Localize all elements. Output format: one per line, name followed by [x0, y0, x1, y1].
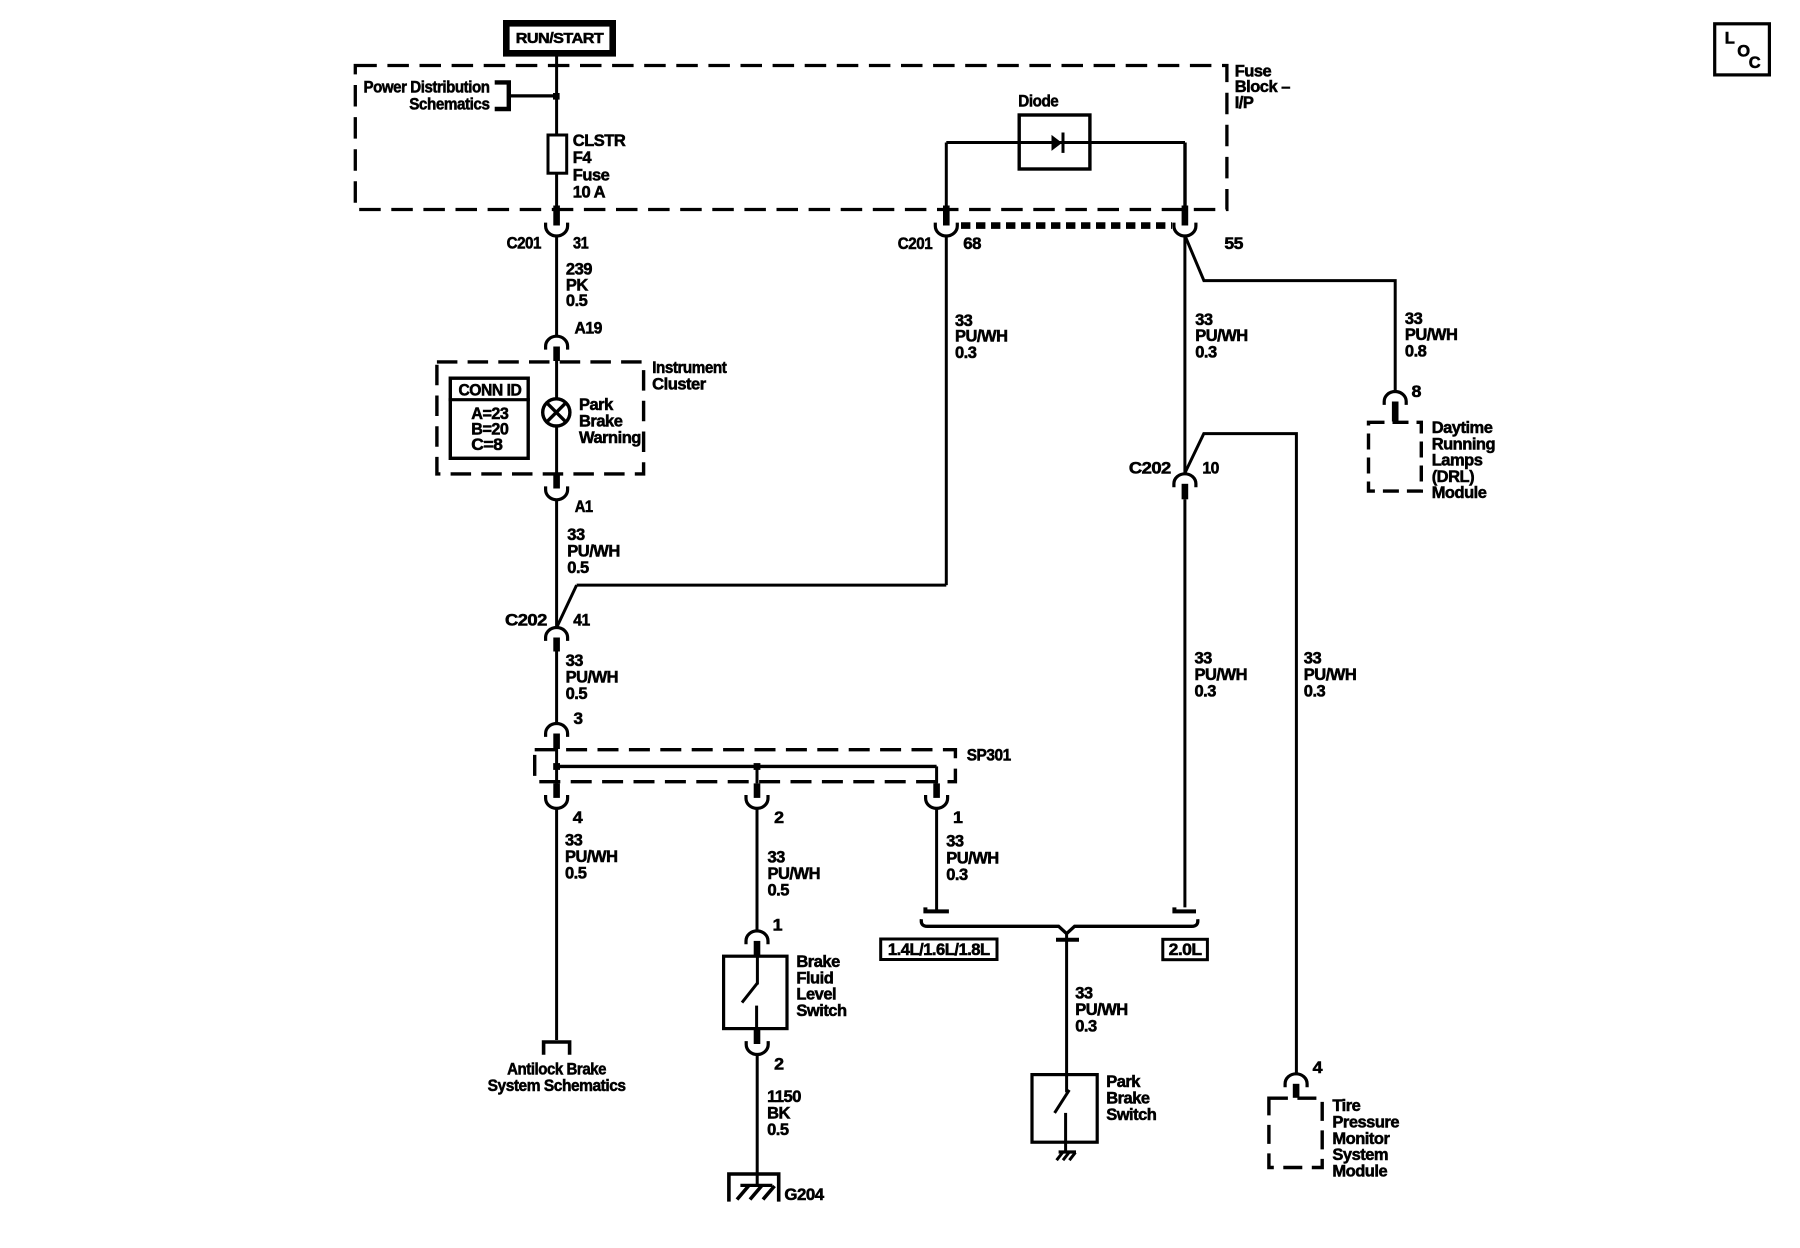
svg-text:RUN/START: RUN/START	[516, 30, 604, 47]
wire 239 PK 0.5 from C201-31 to cluster pin A19	[555, 236, 558, 336]
svg-text:L: L	[1725, 29, 1735, 47]
wire 33 PU/WH 0.3 from C201-55 down to C202 pin 10	[1183, 236, 1186, 474]
svg-text:Instrument: Instrument	[652, 359, 727, 377]
connector SP301 pin 4 female cup	[546, 795, 568, 808]
svg-text:G204: G204	[784, 1186, 825, 1204]
connector A1 female cup	[546, 486, 568, 499]
connector pin 4 male pin (TPM)	[1293, 1084, 1300, 1098]
connector pin 2 female cup (BFLS out)	[746, 1041, 768, 1054]
wire end tick (1.4L/1.6L/1.8L variant)	[925, 907, 949, 911]
wire 1150 BK 0.5 to ground G204	[756, 1055, 759, 1186]
junction dot SP301 at pin 3/4 column	[553, 763, 560, 770]
svg-text:1: 1	[773, 916, 783, 934]
svg-text:Cluster: Cluster	[652, 376, 707, 394]
connector SP301 pin 3 female cup	[546, 724, 568, 737]
park brake switch contacts	[1065, 1073, 1068, 1092]
off-page connector to antilock brake system schematics	[542, 1040, 572, 1055]
svg-text:A1: A1	[575, 498, 593, 516]
svg-text:System Schematics: System Schematics	[488, 1077, 626, 1095]
svg-text:C201: C201	[898, 235, 933, 253]
svg-text:CONN ID: CONN ID	[458, 382, 521, 400]
connector SP301 pin 4 male pin	[553, 783, 560, 798]
brake fluid level switch contacts	[756, 955, 759, 985]
engine variant selection brace	[921, 919, 1198, 933]
svg-text:10: 10	[1202, 459, 1219, 477]
LOC reference box	[1715, 24, 1770, 75]
connector A19 male pin into instrument cluster	[553, 347, 560, 362]
connector A19 female cup	[546, 336, 568, 349]
label box 2.0L	[1163, 939, 1208, 959]
ground G204 symbol	[729, 1174, 779, 1202]
wire end tick (2.0L variant)	[1174, 907, 1196, 911]
connector C201 pin 68 female cup	[935, 223, 957, 236]
junction dot at power distribution tap	[553, 93, 560, 100]
connector C202 pin 10 male pin	[1182, 484, 1189, 500]
connector C202 pin 10 female cup	[1174, 474, 1196, 487]
label box 1.4L/1.6L/1.8L	[881, 939, 997, 960]
wire SP301 bus drop to pin 4	[555, 766, 558, 783]
svg-text:C: C	[1749, 54, 1761, 72]
svg-text:C=8: C=8	[471, 436, 502, 454]
connector SP301 pin 3 male pin	[553, 734, 560, 750]
wire 33 PU/WH 0.3 from SP301-1 to engine variant brace	[935, 809, 938, 910]
splice pack SP301 dashed outline	[535, 750, 956, 782]
fuse CLSTR F4 10A symbol	[548, 135, 567, 173]
diagonal wire into C202 pin 41	[557, 585, 577, 628]
wire 33 PU/WH 0.3 from brace to park brake switch	[1065, 934, 1068, 1075]
connector pin 8 male pin (DRL)	[1392, 402, 1399, 422]
svg-text:4: 4	[573, 809, 584, 827]
svg-text:Antilock Brake: Antilock Brake	[507, 1060, 606, 1078]
svg-text:C201: C201	[507, 234, 542, 252]
connector SP301 pin 2 female cup	[746, 795, 768, 808]
wire from RUN/START down to fuse CLSTR F4	[555, 57, 558, 136]
fuse block I/P dashed outline	[355, 66, 1227, 210]
wire SP301 bus drop to pin 1	[935, 766, 938, 783]
junction dot SP301 at pin 2 column	[754, 763, 761, 770]
svg-text:8: 8	[1412, 383, 1422, 401]
park brake switch box	[1032, 1075, 1097, 1143]
wire through fuse to C201 pin 31	[555, 173, 558, 208]
connector A1 male pin out of instrument cluster	[553, 473, 560, 489]
connector pin 1 male pin (BFLS)	[754, 941, 761, 956]
connector C201 pin 55 male pin	[1182, 206, 1189, 226]
connector pin 8 female cup (DRL)	[1384, 392, 1406, 405]
connector SP301 pin 2 male pin	[754, 783, 761, 798]
brake fluid level switch box	[724, 956, 787, 1028]
instrument cluster dashed outline	[437, 362, 644, 474]
tire pressure monitor system module dashed outline	[1269, 1098, 1322, 1167]
connector pin 2 male pin (BFLS out)	[754, 1028, 761, 1044]
wire SP301 entry to bus	[555, 748, 558, 766]
CONN ID table box	[450, 378, 528, 458]
svg-text:2: 2	[774, 1055, 784, 1073]
svg-text:41: 41	[573, 612, 590, 630]
diode box outline	[1019, 115, 1090, 169]
wire 33 PU/WH 0.3 from C202-10 to engine variant brace	[1183, 499, 1186, 907]
wire 33 PU/WH 0.5 from A1 to C202 pin 41	[555, 500, 558, 628]
bracket from Power Distribution Schematics to wire	[495, 82, 509, 109]
connector pin 1 female cup (BFLS)	[746, 931, 768, 944]
connector C201 pin 55 female cup	[1174, 223, 1196, 236]
svg-text:1.4L/1.6L/1.8L: 1.4L/1.6L/1.8L	[888, 941, 990, 959]
chassis ground at park brake switch	[1057, 1152, 1076, 1160]
connector C201 pin 68 male pin	[943, 206, 950, 226]
connector C201 pin 31 female cup	[546, 223, 568, 236]
wire SP301 bus drop to pin 2	[756, 766, 759, 783]
connector C201 pin 31 male pin	[553, 206, 560, 226]
wire 33 PU/WH 0.5 from C202-41 to splice pack	[555, 651, 558, 724]
wire from lamp to cluster pin A1	[555, 426, 558, 476]
svg-text:31: 31	[573, 234, 589, 252]
svg-text:SP301: SP301	[967, 747, 1011, 765]
wire from C201-55 diagonal to DRL run	[1185, 236, 1395, 391]
horizontal wire run to C202 pin 41	[577, 584, 947, 587]
wire 33 PU/WH 0.5 from SP301-4 to antilock brake schematics	[555, 809, 558, 1041]
connector SP301 pin 1 female cup	[926, 795, 948, 808]
svg-text:C202: C202	[1129, 459, 1171, 477]
svg-text:2: 2	[774, 809, 784, 827]
wire 33 PU/WH 0.5 from SP301-2 to brake fluid level switch	[756, 809, 759, 932]
svg-text:Power Distribution: Power Distribution	[364, 79, 490, 97]
svg-text:C202: C202	[505, 612, 547, 630]
node RUN/START (power feed label box)	[506, 23, 612, 53]
svg-text:2.0L: 2.0L	[1169, 941, 1202, 959]
wire inside cluster from A19 to park brake warning lamp	[555, 360, 558, 399]
svg-text:55: 55	[1224, 235, 1243, 253]
svg-text:Diode: Diode	[1018, 93, 1058, 111]
diode symbol	[1052, 135, 1063, 151]
connector SP301 pin 1 male pin	[933, 783, 940, 798]
wire diode left leg down to C201 pin 68	[945, 143, 948, 209]
svg-text:1: 1	[953, 809, 963, 827]
dotted connector line C201 between pins 68 and 55	[961, 222, 1172, 229]
connector pin 4 female cup (TPM)	[1285, 1074, 1307, 1087]
svg-text:Schematics: Schematics	[409, 96, 490, 114]
svg-text:3: 3	[574, 710, 583, 728]
diagonal + run to tire pressure monitor branch	[1185, 434, 1297, 1074]
connector C202 pin 41 male pin	[553, 638, 560, 652]
svg-text:4: 4	[1313, 1059, 1324, 1077]
brace output tick	[1056, 938, 1079, 942]
splice bus bar inside SP301	[557, 765, 937, 768]
connector C202 pin 41 female cup	[546, 628, 568, 641]
wire diode right leg down to C201 pin 55	[1183, 143, 1186, 209]
park brake warning indicator lamp	[543, 399, 570, 426]
wire through diode from C201-68 leg to pin-55 leg	[946, 141, 1185, 144]
svg-text:68: 68	[963, 235, 981, 253]
svg-text:A19: A19	[575, 320, 603, 338]
daytime running lamps DRL module dashed outline	[1369, 422, 1422, 491]
wire from C201-68 down to horizontal run	[945, 236, 948, 585]
